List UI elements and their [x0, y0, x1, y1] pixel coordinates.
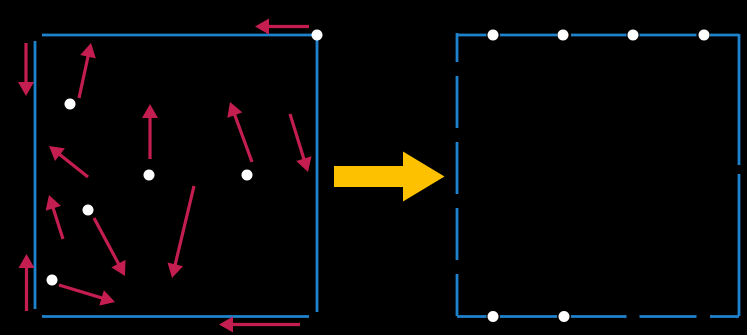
arrow: molecule velocity up-right (near top-left particle)	[79, 43, 96, 98]
arrow: molecule velocity down-right (from mid-left particle)	[94, 218, 126, 276]
gas molecule, center-left	[144, 170, 155, 181]
arrow: molecule velocity down (center)	[168, 186, 195, 278]
adsorbed molecule, bottom wall 1	[488, 311, 499, 322]
adsorbed molecule, top wall 2	[558, 30, 569, 41]
arrow: molecule velocity up-left (mid-left)	[49, 146, 88, 177]
arrow: molecule velocity up-left small (lower-left)	[46, 195, 63, 239]
arrow: molecule velocity up-left (near right particle)	[227, 102, 252, 162]
gas molecule, mid-left	[83, 205, 94, 216]
right container wall: top (dashed)	[457, 34, 739, 37]
arrow: molecule escaping, up, outside lower-left wall	[19, 254, 35, 311]
arrow: molecule velocity up (above center particle)	[142, 104, 158, 159]
arrow: molecule escaping, down, outside upper-left wall	[18, 43, 34, 96]
arrow: molecule velocity down-right (near right wall)	[290, 114, 312, 172]
gas molecule, bottom-left	[47, 275, 58, 286]
arrow: molecule velocity right (from bottom-left particle)	[59, 285, 115, 306]
yellow process arrow (gas escapes / adsorbs to walls)	[334, 152, 445, 202]
left gas container wall: left	[34, 41, 37, 309]
arrow: molecule escaping, left, below bottom wall	[219, 317, 300, 333]
gas molecule, center-right	[242, 170, 253, 181]
adsorbed molecule, bottom wall 2	[559, 311, 570, 322]
right container wall: bottom (dashed)	[457, 315, 739, 318]
gas molecule, upper-left	[65, 99, 76, 110]
right container wall: left (dashed)	[456, 33, 459, 316]
left gas container wall: right	[316, 38, 319, 312]
left gas container wall: top	[42, 34, 317, 37]
gas molecule, escaping at top-right corner	[312, 30, 323, 41]
adsorbed molecule, top wall 3	[628, 30, 639, 41]
arrow: molecule escaping, left, above top wall	[255, 19, 309, 35]
right container wall: right (dashed)	[738, 34, 741, 316]
adsorbed molecule, top wall 4	[699, 30, 710, 41]
adsorbed molecule, top wall 1	[488, 30, 499, 41]
left gas container wall: bottom	[42, 315, 309, 318]
